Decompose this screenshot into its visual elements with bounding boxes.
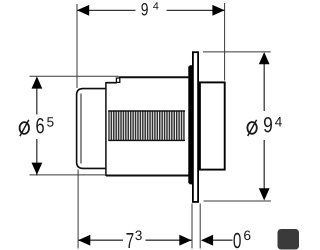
step notch square bbox=[116, 78, 119, 82]
corner badge bbox=[278, 229, 300, 250]
arrowhead top-left pointing left bbox=[77, 5, 89, 16]
housing step edge bbox=[106, 82, 117, 84]
ribs top border bbox=[108, 110, 185, 112]
extension line bottom of right dimension ø94 bbox=[204, 200, 272, 202]
extension line top of left dimension ø65 bbox=[30, 75, 119, 77]
housing left edge bbox=[105, 82, 107, 176]
arrowhead right-dim up bbox=[259, 52, 270, 64]
extension line left of top dimension 94 bbox=[76, 4, 78, 88]
extension line right of top dimension 94 bbox=[224, 3, 226, 81]
dimension line top 94 right segment bbox=[167, 9, 225, 11]
extension line bottom of left dimension ø65 bbox=[30, 174, 106, 176]
dimension shaft lower right ø94 bbox=[263, 140, 265, 191]
arrowhead bottom 06 pointing left bbox=[201, 235, 213, 246]
dimension line bottom 73 left segment bbox=[78, 239, 123, 241]
flange cover plate bbox=[193, 52, 198, 202]
ribs bottom border bbox=[108, 139, 185, 141]
label ø 65 left bbox=[20, 117, 54, 136]
housing bottom edge bbox=[106, 174, 189, 176]
arrowhead left-dim down bbox=[32, 163, 43, 175]
housing top edge bbox=[119, 76, 189, 78]
arrowhead bottom 73 left pointing left bbox=[78, 235, 90, 246]
arrowhead top-right pointing right bbox=[212, 5, 224, 16]
button box bbox=[200, 82, 225, 169]
arrowhead right-dim down bbox=[259, 188, 270, 200]
label 94 top bbox=[141, 2, 158, 15]
extension line left of bottom dimension 73 bbox=[77, 170, 79, 249]
extension line middle-left (flange front) bottom bbox=[191, 204, 193, 249]
extension line middle-right (flange back) bottom bbox=[199, 204, 201, 249]
label 73 bottom bbox=[126, 231, 141, 248]
arrowhead bottom 73 right pointing right bbox=[179, 235, 191, 246]
arrowhead left-dim up bbox=[32, 76, 43, 88]
label 06 bottom bbox=[233, 231, 250, 249]
dimension line top 94 left segment bbox=[77, 9, 136, 11]
dimension shaft upper left ø65 bbox=[36, 86, 38, 115]
sleeve inner contour line bbox=[80, 94, 82, 164]
locknut ring (black bar) bbox=[188, 65, 192, 184]
housing main body fill bbox=[106, 77, 189, 176]
dimension line bottom 06 segment bbox=[213, 239, 233, 241]
dimension line bottom 73 right segment bbox=[146, 239, 192, 241]
extension line top of right dimension ø94 bbox=[203, 51, 271, 53]
outer sleeve cylinder body bbox=[77, 89, 106, 169]
label ø 94 right bbox=[247, 117, 281, 136]
dimension shaft lower left ø65 bbox=[36, 139, 38, 176]
dimension shaft upper right ø94 bbox=[263, 61, 265, 111]
